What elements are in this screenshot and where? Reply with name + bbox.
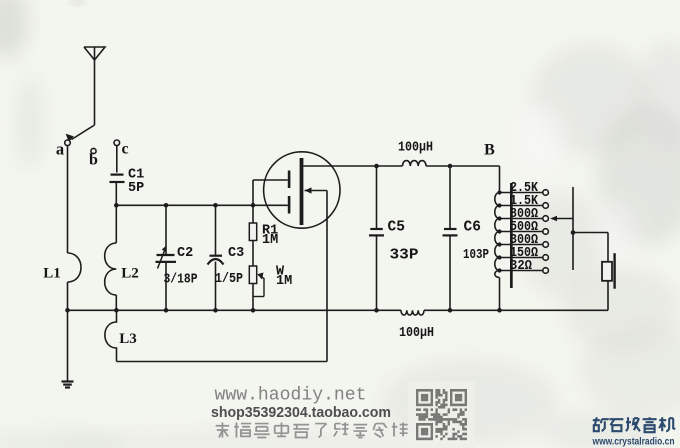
tap wire 1.5K <box>500 203 549 209</box>
svg-text:b: b <box>89 152 98 169</box>
label L1 <box>43 266 61 282</box>
svg-text:L3: L3 <box>119 331 137 347</box>
ground <box>62 382 74 388</box>
transformer core bar <box>510 183 513 288</box>
tap node dots on coil <box>497 190 501 272</box>
potentiometer W <box>249 266 264 297</box>
node dot R1 top <box>251 203 256 208</box>
watermark scan qr chinese text <box>216 423 408 438</box>
FET body circle Q1 <box>264 152 340 228</box>
terminal b <box>91 148 96 153</box>
earphone SP <box>602 253 616 289</box>
wire C2 bottom <box>165 262 167 310</box>
svg-text:32Ω: 32Ω <box>510 259 532 274</box>
capacitor C1 <box>110 175 125 182</box>
tap wire 32 ohm <box>500 268 549 274</box>
QR quiet zone <box>408 381 475 448</box>
wire R1 top <box>252 205 254 223</box>
svg-text:1/5P: 1/5P <box>215 272 243 287</box>
svg-text:www.crystalradio.cn: www.crystalradio.cn <box>592 437 675 448</box>
label C3 <box>228 246 244 261</box>
wire R1 to W <box>252 241 254 267</box>
svg-text:www.haodiy.net: www.haodiy.net <box>215 386 367 406</box>
selector arrow to 800 ohm tap <box>550 216 573 222</box>
label R1 1M <box>262 233 278 248</box>
wire L1 to ground <box>67 282 69 381</box>
inductor L1 <box>68 253 82 282</box>
FET gate bar 2 <box>288 196 291 214</box>
label tap 1.5K <box>510 194 539 209</box>
wire C6 <box>449 166 451 229</box>
label tap 32 ohm <box>510 259 532 274</box>
switch arm wire <box>66 125 95 142</box>
svg-text:1M: 1M <box>262 233 278 248</box>
label a <box>56 140 64 159</box>
svg-text:c: c <box>121 141 128 158</box>
capacitor C6 <box>443 229 458 235</box>
tap wire 500 ohm <box>500 229 549 235</box>
inductor choke 100uH bottom <box>401 310 424 315</box>
label 1/5P <box>215 272 243 287</box>
svg-text:5P: 5P <box>128 181 144 196</box>
svg-text:1M: 1M <box>276 274 292 289</box>
label W 1M <box>276 274 292 289</box>
label C5 <box>388 220 405 236</box>
wire C5 <box>376 166 378 229</box>
inductor L3 <box>105 310 117 361</box>
node dot C5 top <box>374 164 379 169</box>
inductor L2 <box>105 243 117 310</box>
label b <box>89 152 98 169</box>
crystalradio url <box>592 437 675 448</box>
label W <box>276 265 285 280</box>
svg-text:C3: C3 <box>228 246 244 261</box>
watermark haodiy <box>215 386 367 406</box>
drain wire to C5 <box>303 165 402 167</box>
wire C3 top <box>215 205 217 255</box>
FET gate 1 lead <box>253 180 288 205</box>
node dot selector <box>571 230 576 235</box>
label tap 800 ohm <box>510 207 538 222</box>
resistor R1 <box>249 223 256 241</box>
svg-text:100μH: 100μH <box>398 141 433 156</box>
QR code <box>416 389 467 440</box>
wire from terminal c down to C1 <box>116 146 118 173</box>
svg-text:100μH: 100μH <box>399 326 434 341</box>
label 33P <box>390 248 419 264</box>
label 3/18P <box>164 273 198 288</box>
label B <box>484 142 495 159</box>
node dots bottom bus <box>65 308 502 313</box>
node dot C2 top <box>164 203 169 208</box>
FET source lead with arrow <box>305 187 328 361</box>
wire C2 top <box>165 205 167 255</box>
label tap 300 ohm <box>510 233 538 248</box>
capacitor C2 variable <box>156 245 177 268</box>
tap wire 800 ohm <box>500 216 549 222</box>
top gate bus wire <box>116 204 287 206</box>
svg-text:L2: L2 <box>121 266 139 282</box>
svg-text:C5: C5 <box>388 220 405 236</box>
svg-text:L1: L1 <box>43 266 61 282</box>
bottom bus wire <box>68 309 609 311</box>
wire W bottom <box>252 284 254 311</box>
label 5P <box>128 181 144 196</box>
label L2 <box>121 266 139 282</box>
node dot C6 top <box>448 164 453 169</box>
label R1 <box>262 224 278 239</box>
label L3 <box>119 331 137 347</box>
capacitor C5 <box>369 229 384 235</box>
FET gate bar 1 <box>288 171 291 189</box>
wire choke to B corner <box>426 165 500 167</box>
wire L3 bottom to FET source <box>117 361 328 363</box>
label tap 150 ohm <box>510 246 538 261</box>
tap wire 2.5K <box>500 190 549 196</box>
watermark shop taobao <box>211 405 391 421</box>
wire from terminal a down <box>67 146 69 253</box>
svg-text:a: a <box>56 140 64 159</box>
node dot C3 top <box>213 203 218 208</box>
tap wire 300 ohm <box>500 242 549 248</box>
label C2 <box>177 246 193 261</box>
wire selector to earphone <box>573 233 608 263</box>
wire C5 bottom <box>376 235 378 310</box>
wire C3 bottom <box>215 262 217 311</box>
transformer T1 primary coil <box>495 166 500 310</box>
capacitor C3 trimmer <box>208 256 224 265</box>
wire C1 to L2 <box>115 182 117 243</box>
FET channel bar <box>300 158 304 225</box>
node dot C1 junction <box>114 203 119 208</box>
crystalradio logo chinese <box>593 417 675 432</box>
label 100uH bottom <box>399 326 434 341</box>
svg-text:103P: 103P <box>463 247 489 263</box>
selector rail wire <box>572 187 574 270</box>
svg-text:shop35392304.taobao.com: shop35392304.taobao.com <box>211 405 391 421</box>
tap wire 150 ohm <box>500 255 549 261</box>
svg-text:B: B <box>484 142 495 159</box>
label 103P <box>463 247 489 263</box>
label tap 500 ohm <box>510 220 538 235</box>
antenna <box>84 47 105 125</box>
svg-text:3/18P: 3/18P <box>164 273 198 288</box>
wire earphone bottom <box>607 281 609 311</box>
wire C6 bottom <box>449 235 451 310</box>
label C6 <box>464 220 481 236</box>
svg-text:C6: C6 <box>464 220 481 236</box>
label tap 2.5K <box>510 181 539 196</box>
label C1 <box>128 168 144 183</box>
svg-text:33P: 33P <box>390 248 419 264</box>
label 100uH top <box>398 141 433 156</box>
label c <box>121 141 128 158</box>
terminal c <box>114 140 120 146</box>
svg-text:C2: C2 <box>177 246 193 261</box>
terminal a <box>65 140 71 146</box>
inductor choke 100uH top <box>403 161 427 166</box>
